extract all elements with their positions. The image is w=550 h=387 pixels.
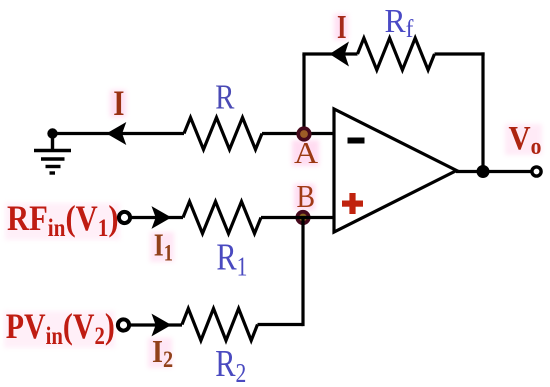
current arrow I (feedback, pointing left) [331, 43, 348, 64]
input terminal V2 [118, 319, 129, 330]
current arrow I2 (pointing right) [153, 315, 170, 334]
svg-text:R: R [215, 77, 235, 116]
wire V2 input to resistor R2 [129, 323, 182, 326]
svg-text:I: I [113, 84, 124, 124]
ground [34, 128, 71, 173]
wire ground to op-amp inverting input [53, 132, 185, 135]
svg-text:B: B [297, 179, 316, 214]
svg-text:I: I [337, 9, 347, 46]
op-amp U1 [334, 109, 457, 232]
current arrow I (left) on input wire [108, 124, 125, 143]
resistor R2 [182, 309, 258, 341]
resistor R [184, 118, 262, 150]
wire node A up to feedback [302, 54, 305, 135]
svg-text:R1: R1 [216, 236, 247, 282]
wire R2 to node B [258, 323, 304, 326]
feedback top wire [302, 52, 357, 55]
resistor R1 [183, 202, 261, 234]
resistor Rf [358, 38, 435, 70]
output node [477, 165, 490, 178]
output wire [456, 170, 531, 173]
wire V1 input to node B [130, 216, 183, 219]
node A [296, 126, 311, 141]
svg-text:Rf: Rf [385, 3, 415, 43]
op-amp plus sign [342, 193, 363, 214]
output terminal [532, 167, 541, 176]
op-amp minus sign [348, 138, 365, 144]
wire feedback down to output node [481, 52, 484, 171]
current arrow I1 (pointing right) [153, 208, 170, 227]
node B [295, 210, 310, 225]
svg-text:R2: R2 [215, 343, 246, 387]
input terminal V1 [119, 212, 130, 223]
svg-text:A: A [294, 135, 319, 170]
